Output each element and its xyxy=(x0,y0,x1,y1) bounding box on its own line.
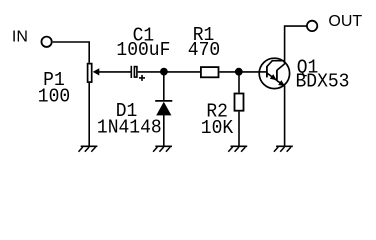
terminal OUT xyxy=(307,21,317,31)
wire R1 to node B xyxy=(219,71,239,73)
wire Q1 emitter to ground xyxy=(284,86,286,146)
wire Q1 collector to OUT xyxy=(285,26,307,61)
wire node B to Q1 base xyxy=(239,71,259,73)
node B (junction dot) xyxy=(235,68,243,76)
ground (below D1) xyxy=(153,146,172,152)
wire IN to P1 top xyxy=(53,42,89,63)
ground (below R2) xyxy=(228,146,247,152)
svg-text:OUT: OUT xyxy=(328,13,362,30)
wire C1 to node A xyxy=(138,71,164,73)
potentiometer P1 xyxy=(88,64,132,83)
wire R2 to ground xyxy=(238,112,240,147)
terminal IN xyxy=(41,37,51,47)
node A (junction dot) xyxy=(160,68,168,76)
capacitor C1 xyxy=(131,66,145,81)
svg-text:1N4148: 1N4148 xyxy=(97,116,162,139)
wire node B down to R2 xyxy=(238,72,240,93)
svg-text:BDX53: BDX53 xyxy=(296,70,350,93)
svg-text:100uF: 100uF xyxy=(116,39,170,62)
svg-text:IN: IN xyxy=(12,29,28,46)
svg-text:470: 470 xyxy=(188,38,220,61)
wire node A to R1 xyxy=(164,71,201,73)
svg-text:10K: 10K xyxy=(201,116,234,139)
wire P1 bottom to ground xyxy=(88,83,90,146)
svg-text:100: 100 xyxy=(38,85,70,108)
resistor R1 xyxy=(201,67,219,77)
wire node A down to D1 xyxy=(163,72,165,100)
resistor R2 xyxy=(235,94,244,111)
ground (below Q1 emitter) xyxy=(274,146,293,152)
transistor Q1 xyxy=(259,58,290,88)
ground (below P1) xyxy=(79,146,98,152)
diode D1 xyxy=(155,101,172,116)
wire D1 to ground xyxy=(163,115,165,147)
